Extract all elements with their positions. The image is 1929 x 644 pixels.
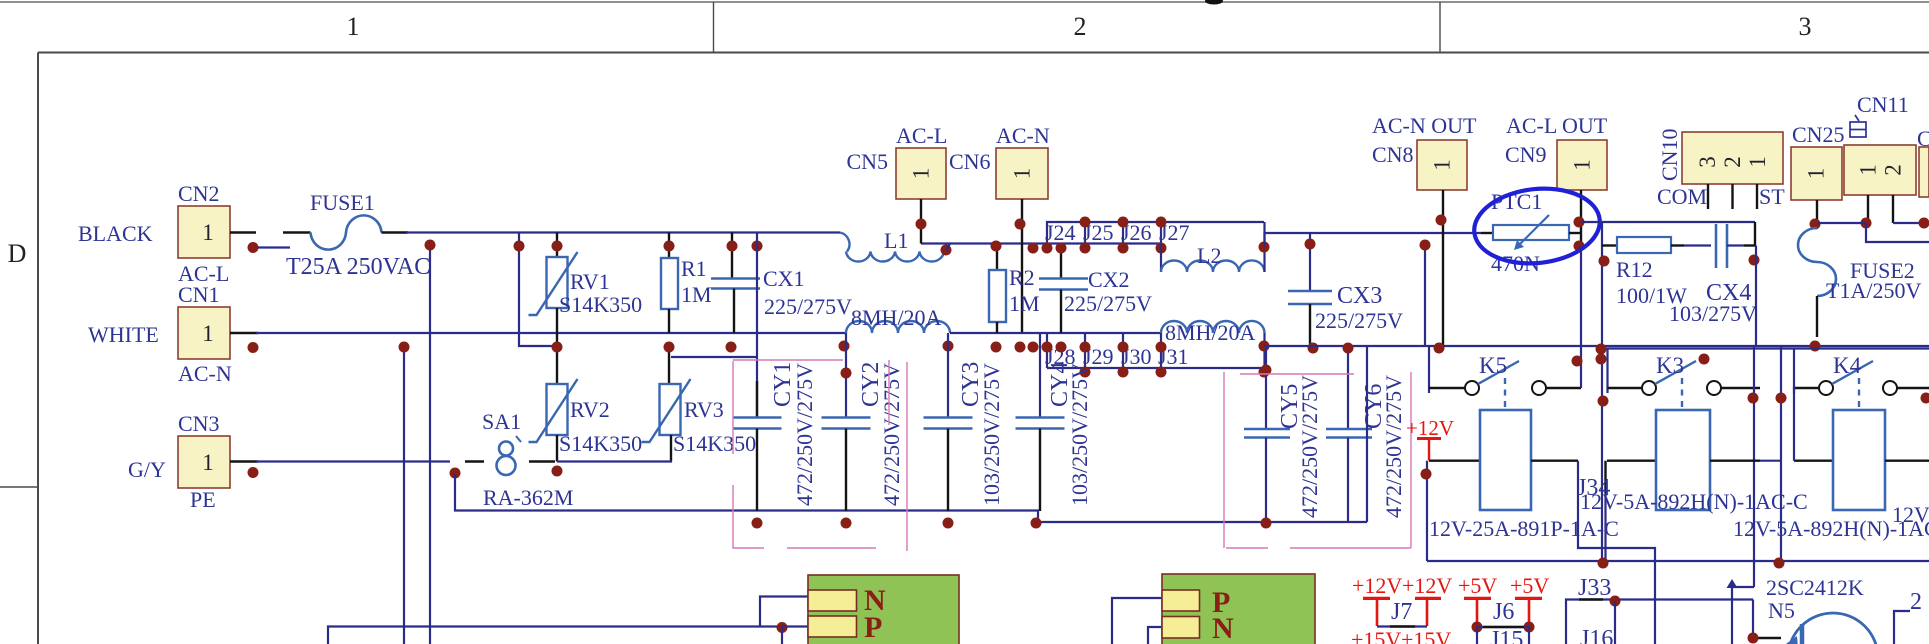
svg-text:103/250V/275V: 103/250V/275V xyxy=(979,363,1004,506)
svg-text:12V-25A-891P-1A-C: 12V-25A-891P-1A-C xyxy=(1429,516,1619,541)
CN6 pin lead down to AC-N wire xyxy=(1021,199,1023,333)
junction dot CN6 bottom xyxy=(1015,342,1026,353)
dots J24 row lower xyxy=(1028,243,1039,254)
jumper J7 link xyxy=(1377,625,1427,627)
svg-text:AC-N: AC-N xyxy=(996,123,1050,148)
junction dot CX1 top xyxy=(727,241,738,252)
svg-text:472/250V/275V: 472/250V/275V xyxy=(1381,375,1406,518)
junction dot CX1 bottom xyxy=(726,342,737,353)
svg-text:1: 1 xyxy=(1010,168,1035,180)
vertical wire CX4 node to bus xyxy=(1755,246,1757,347)
pink bracket CY2 right vertical xyxy=(888,360,890,425)
junction dot choke left xyxy=(839,341,850,352)
pink bracket CY1/CY2 left bottom xyxy=(733,485,876,548)
junction dot CN25 pin xyxy=(1810,219,1821,230)
relay contact K3 feed xyxy=(1606,349,1608,394)
svg-text:+12V: +12V xyxy=(1406,416,1454,440)
relay contact K4 poles and blade xyxy=(1819,361,1897,395)
vertical wire mid-bottom xyxy=(1654,561,1656,644)
dots J24 bus xyxy=(1080,217,1091,228)
blue highlight ellipse around PTC1 xyxy=(1470,183,1603,270)
svg-text:RV3: RV3 xyxy=(684,397,724,422)
vertical wire coil2 return xyxy=(1780,346,1782,561)
junction dot AC-N drop top xyxy=(1259,341,1270,352)
junction dot base lead xyxy=(1748,633,1759,644)
wire PE return under RA-362M xyxy=(455,473,1367,522)
wire L-bend AC-L to RV2 row xyxy=(519,233,557,347)
relay contact K3 left lead xyxy=(1608,387,1643,389)
junction dot R12 branch xyxy=(1599,256,1610,267)
svg-text:2: 2 xyxy=(1720,156,1745,168)
wire P pin stub xyxy=(782,625,808,627)
jumper J7 link black tick xyxy=(1390,625,1415,627)
svg-text:CN9: CN9 xyxy=(1505,142,1547,167)
relay contact K5 poles and blade xyxy=(1465,361,1546,395)
svg-text:J33: J33 xyxy=(1578,575,1611,601)
K4 right lead xyxy=(1897,387,1929,389)
fuse FUSE1 symbol xyxy=(283,215,408,249)
svg-text:1: 1 xyxy=(202,220,214,245)
svg-text:1: 1 xyxy=(1804,168,1829,180)
svg-text:103/275V: 103/275V xyxy=(1669,301,1757,326)
pink bracket CY1/CY2 top xyxy=(733,359,843,361)
junction dot CN8 pin xyxy=(1436,215,1447,226)
svg-text:1: 1 xyxy=(1745,156,1770,168)
jumper J15 link xyxy=(1477,626,1529,628)
svg-text:N: N xyxy=(1212,612,1234,644)
choke 8MH/20A on AC-N right xyxy=(1161,321,1265,333)
+12V left bar symbol xyxy=(1363,598,1390,626)
spark gap SA1 symbol xyxy=(465,436,555,475)
svg-text:1: 1 xyxy=(1570,159,1595,171)
junction dot P pin wire xyxy=(777,622,788,633)
relay coil K3 xyxy=(1656,410,1710,510)
jumper J34 left leg xyxy=(1578,461,1655,561)
svg-text:R1: R1 xyxy=(681,256,707,281)
capacitor CY4 xyxy=(1016,333,1065,511)
transistor base bar xyxy=(1800,624,1805,644)
K5 dashed link to coil xyxy=(1504,378,1506,410)
junction dot J33 xyxy=(1610,596,1621,607)
dots J28 row top xyxy=(1028,342,1039,353)
connector CN5 (AC-L) xyxy=(896,148,946,199)
wire P pin connector2 xyxy=(1112,598,1162,644)
connector CN8 (AC-N OUT) xyxy=(1417,140,1467,190)
relay contact K5 feed xyxy=(1428,346,1430,394)
right edge partial wire xyxy=(1894,611,1910,644)
CN10 pin 2 stub xyxy=(1731,184,1733,209)
svg-text:CN2: CN2 xyxy=(178,181,220,206)
choke 8MH/20A on AC-N under L1 xyxy=(846,321,950,333)
svg-text:472/250V/275V: 472/250V/275V xyxy=(879,363,904,506)
CN10 pin 3 stub xyxy=(1707,184,1709,209)
svg-text:AC-N OUT: AC-N OUT xyxy=(1372,113,1477,138)
pink bracket CY5/CY6 bottom xyxy=(1226,547,1268,549)
vertical wire AC-L to relay feed xyxy=(1424,245,1426,346)
svg-text:3: 3 xyxy=(1695,156,1720,168)
CN9 pin lead down xyxy=(1580,190,1582,246)
svg-text:D: D xyxy=(8,239,27,268)
junction dots near K5 right xyxy=(1572,356,1583,367)
wire CN11 pin2 right xyxy=(1893,222,1929,224)
pink bracket CY5 left vertical xyxy=(1223,372,1225,548)
junction dot CN11 pin2 wire xyxy=(1919,218,1929,229)
dots J28 row bottom xyxy=(1080,367,1091,378)
svg-text:3: 3 xyxy=(1799,12,1812,41)
wire CN25 dot to CN11 pin1 xyxy=(1817,222,1866,224)
varistor RV2 xyxy=(556,333,558,384)
varistor RV3 xyxy=(668,347,670,384)
svg-text:225/275V: 225/275V xyxy=(1315,308,1403,333)
wire AC-N drop after choke xyxy=(1263,333,1265,372)
varistor RV1 xyxy=(556,233,558,258)
junction dot AC-L relay feed xyxy=(1420,240,1431,251)
coil K4 right lead xyxy=(1885,460,1929,462)
junction dots K3 area xyxy=(1596,344,1607,355)
capacitor CX1 xyxy=(731,233,733,279)
green output connector 2 xyxy=(1162,574,1315,644)
svg-text:COM: COM xyxy=(1657,184,1707,209)
svg-text:225/275V: 225/275V xyxy=(764,294,852,319)
svg-text:K5: K5 xyxy=(1479,353,1507,378)
relay coil K5 xyxy=(1480,410,1531,510)
sheet border left vertical xyxy=(37,53,39,644)
svg-text:J7: J7 xyxy=(1391,599,1412,625)
svg-text:+15V: +15V xyxy=(1351,627,1401,644)
wire stub from CN2 dot xyxy=(258,246,290,248)
wire CN9 down to K5 right xyxy=(1580,246,1582,388)
+12V right bar symbol xyxy=(1415,598,1441,626)
svg-text:103/250V/275V: 103/250V/275V xyxy=(1067,363,1092,506)
junction dot AC-L drop xyxy=(425,240,436,251)
partial connector at right edge xyxy=(1919,147,1929,197)
svg-text:1: 1 xyxy=(909,168,934,180)
capacitor CY6 xyxy=(1326,346,1372,522)
CN11 pin 2 lead xyxy=(1892,195,1894,223)
sheet border top line xyxy=(0,1,1929,3)
vertical wire from J33 dot xyxy=(1614,601,1616,644)
svg-text:1: 1 xyxy=(202,321,214,346)
fuse FUSE2 symbol xyxy=(1798,228,1836,337)
CN11 Chinese label white (drawn) xyxy=(1850,115,1866,137)
junction dot AC-N drop bottom xyxy=(1259,367,1270,378)
cut-off title glyph remnant xyxy=(1205,0,1223,5)
capacitor CX2 xyxy=(1060,244,1062,278)
resistor R1 xyxy=(668,233,670,259)
junction dot L2 right xyxy=(1259,242,1270,253)
svg-text:225/275V: 225/275V xyxy=(1064,291,1152,316)
svg-text:L1: L1 xyxy=(884,228,908,253)
vertical wire CY1 feed xyxy=(756,233,758,417)
svg-text:2SC2412K: 2SC2412K xyxy=(1766,575,1864,600)
junction dot CN11 pin1 xyxy=(1861,218,1872,229)
connector1 pin N box xyxy=(808,590,857,611)
coil K3 right lead xyxy=(1710,460,1781,462)
CN10 pin 1 lower jog xyxy=(1754,222,1756,245)
svg-text:J24: J24 xyxy=(1045,220,1076,245)
R1 bottom lead xyxy=(668,309,670,333)
connector CN10 xyxy=(1682,132,1783,184)
resistor R2 xyxy=(996,244,998,270)
svg-text:472/250V/275V: 472/250V/275V xyxy=(792,363,817,506)
pink bracket CY5/CY6 top xyxy=(1240,373,1354,375)
net continuation arrow up xyxy=(1727,579,1738,588)
svg-text:RA-362M: RA-362M xyxy=(483,485,573,510)
pink bracket CY1/CY2 left upper vertical xyxy=(732,361,734,454)
wire K4 feed down to coil xyxy=(1793,386,1795,461)
svg-text:RV2: RV2 xyxy=(570,397,610,422)
junction dot CY5 bottom xyxy=(1261,518,1272,529)
junction dot CN9 pin xyxy=(1574,217,1585,228)
connector CN11 xyxy=(1844,145,1916,195)
svg-text:1: 1 xyxy=(1430,159,1455,171)
svg-text:AC-L OUT: AC-L OUT xyxy=(1506,113,1608,138)
wire N pin L-bend xyxy=(760,597,808,628)
svg-text:1: 1 xyxy=(1856,164,1881,176)
wire +12V to coil K5 xyxy=(1429,460,1480,462)
junction dot +12V branch xyxy=(1421,469,1432,480)
svg-text:PE: PE xyxy=(190,487,216,512)
vertical wire +12V branch to rail xyxy=(1426,461,1428,561)
wire AC-N between chokes xyxy=(950,332,1161,334)
svg-text:8MH/20A: 8MH/20A xyxy=(851,305,942,330)
svg-text:S14K350: S14K350 xyxy=(559,431,642,456)
svg-text:+12V: +12V xyxy=(1352,573,1402,598)
K3 dashed link to coil xyxy=(1681,378,1683,410)
svg-text:C: C xyxy=(1917,126,1929,151)
border zone divider 2|3 xyxy=(1439,2,1441,53)
main AC-N bus right section xyxy=(1264,345,1929,347)
transistor emitter arrow xyxy=(1783,636,1798,644)
svg-text:CX2: CX2 xyxy=(1088,267,1130,292)
resistor R12 xyxy=(1602,237,1684,253)
RV3 bottom lead xyxy=(670,435,672,462)
svg-text:SA1: SA1 xyxy=(482,409,521,434)
wire CN11 pin1 jog right xyxy=(1866,223,1929,242)
junction dot CY5 top xyxy=(1261,365,1272,376)
junction dot SA1 right xyxy=(552,466,563,477)
connector2 pin P box xyxy=(1162,590,1200,611)
svg-text:1M: 1M xyxy=(1009,291,1040,316)
junction dot RV1 top xyxy=(552,241,563,252)
wire RV2 bottom to RV3 bottom xyxy=(557,460,672,462)
junction dots J15 xyxy=(1472,622,1483,633)
vertical wire from P dot down xyxy=(781,627,783,644)
svg-text:CX3: CX3 xyxy=(1337,283,1382,309)
relay contact K3 poles and blade xyxy=(1642,361,1721,395)
pink bracket CY3/CY4 vertical xyxy=(906,362,908,551)
vertical wire J33 net to base xyxy=(1752,600,1754,639)
vertical wires below J15 dots xyxy=(1476,627,1478,644)
svg-text:J16: J16 xyxy=(1580,626,1613,644)
junction dot AC-N drop xyxy=(399,342,410,353)
CN11 pin 1 lead xyxy=(1867,195,1869,223)
svg-text:2: 2 xyxy=(1910,589,1922,615)
svg-text:+5V: +5V xyxy=(1510,573,1549,598)
svg-text:FUSE1: FUSE1 xyxy=(310,190,375,215)
junction dot CY2 mid xyxy=(841,368,852,379)
svg-text:8MH/20A: 8MH/20A xyxy=(1165,320,1256,345)
thermistor PTC1 xyxy=(1481,215,1581,250)
wire N pin connector2 xyxy=(1148,627,1162,644)
jumper J25 leg xyxy=(1084,222,1086,244)
junction dot CN2 pin xyxy=(248,242,259,253)
svg-text:CN1: CN1 xyxy=(178,282,220,307)
svg-text:+12V: +12V xyxy=(1402,573,1452,598)
transistor base lead xyxy=(1753,637,1781,639)
capacitor CX3 xyxy=(1288,233,1332,346)
CN25 pin lead xyxy=(1816,200,1818,228)
junction dot CN3 pin xyxy=(248,467,259,478)
K3 right lead xyxy=(1721,387,1760,389)
transistor N5 circle xyxy=(1788,613,1878,644)
svg-text:L2: L2 xyxy=(1197,243,1221,268)
svg-text:CN5: CN5 xyxy=(846,149,888,174)
svg-text:K4: K4 xyxy=(1833,353,1862,378)
junction dot L1 right xyxy=(941,245,952,256)
junction dot CY1 feed top xyxy=(752,241,763,252)
junction dot transistor feed upper xyxy=(1748,393,1759,404)
junction dot choke right xyxy=(943,341,954,352)
capacitor CY2 xyxy=(822,333,871,511)
wire coil K3 left lead xyxy=(1607,460,1656,462)
jumper bank J28-J31 legs xyxy=(1047,333,1264,368)
junction dot R2 top xyxy=(991,241,1002,252)
wire L1 out to J24 row xyxy=(921,244,1161,252)
wire AC-L horizontal xyxy=(406,231,840,233)
inductor L2 xyxy=(1161,222,1265,272)
svg-text:T1A/250V: T1A/250V xyxy=(1826,278,1921,303)
wire G/Y horizontal xyxy=(256,460,450,462)
vertical wire below net arrow xyxy=(1731,588,1733,644)
CN3 pin lead xyxy=(230,460,258,462)
svg-text:1: 1 xyxy=(347,12,360,41)
svg-text:WHITE: WHITE xyxy=(88,322,159,347)
svg-text:AC-N: AC-N xyxy=(178,361,232,386)
capacitor CY1 xyxy=(733,381,782,511)
junction dot CX4 out xyxy=(1749,255,1760,266)
svg-text:BLACK: BLACK xyxy=(78,221,153,246)
svg-text:CN25: CN25 xyxy=(1792,122,1845,147)
CN1 pin lead xyxy=(230,332,258,334)
junction dot R1 top xyxy=(664,241,675,252)
junction dot CN1 pin xyxy=(248,342,259,353)
K5 right lead xyxy=(1546,387,1581,389)
connector CN2 (BLACK AC-L) xyxy=(178,206,230,258)
vertical wire transistor feed xyxy=(1753,346,1755,587)
svg-text:CN6: CN6 xyxy=(949,149,991,174)
RV2 bottom lead xyxy=(556,435,558,462)
junction dot CY6 top xyxy=(1343,343,1354,354)
svg-text:T25A 250VAC: T25A 250VAC xyxy=(286,254,430,280)
wire AC-L after L2 xyxy=(1265,233,1482,247)
+12V supply symbol xyxy=(1406,416,1454,461)
CN8 pin lead down to bus xyxy=(1442,190,1444,346)
wire RV3 top to CY1 feed xyxy=(671,356,757,358)
junction dot CN5 pin xyxy=(916,219,927,230)
svg-text:472/250V/275V: 472/250V/275V xyxy=(1297,375,1322,518)
bottom rail wire xyxy=(1427,560,1929,562)
svg-text:+5V: +5V xyxy=(1458,573,1497,598)
coil K5 right lead xyxy=(1531,460,1578,462)
svg-text:12V-5A-892H(N)-1AC-C: 12V-5A-892H(N)-1AC-C xyxy=(1580,489,1808,514)
border row divider D left edge xyxy=(0,486,38,488)
connector CN3 (G/Y PE) xyxy=(178,436,230,488)
+5V left bar symbol xyxy=(1464,598,1491,626)
svg-text:CN10: CN10 xyxy=(1657,128,1682,181)
jumper J27 leg xyxy=(1160,222,1162,244)
svg-text:12V: 12V xyxy=(1892,502,1929,527)
junction dot FUSE2 bottom xyxy=(1810,341,1821,352)
wire lower bus right end up xyxy=(1366,347,1368,522)
vertical wire R12 branch xyxy=(1601,222,1603,561)
+5V right bar symbol xyxy=(1515,598,1542,626)
svg-text:ST: ST xyxy=(1759,184,1785,209)
connector CN9 (AC-L OUT) xyxy=(1557,140,1607,190)
green output connector 1 xyxy=(808,575,959,644)
CN2 pin lead xyxy=(230,231,256,233)
sheet border inner horizontal xyxy=(38,52,1929,54)
svg-text:CN3: CN3 xyxy=(178,411,220,436)
dots CY bottom bus xyxy=(752,518,763,529)
jumper J15 link black tick xyxy=(1483,626,1524,628)
svg-text:S14K350: S14K350 xyxy=(559,292,642,317)
junction dot K4 right xyxy=(1921,393,1929,404)
relay coil K4 xyxy=(1833,410,1885,510)
junction dot SA1 left xyxy=(450,468,461,479)
junction dot CN8 at bus xyxy=(1434,343,1445,354)
junction dot CX3 bottom xyxy=(1308,343,1319,354)
junction dot at 519 xyxy=(514,241,525,252)
svg-text:CN8: CN8 xyxy=(1372,142,1414,167)
svg-text:R12: R12 xyxy=(1616,257,1653,282)
K4 dashed link to coil xyxy=(1858,378,1860,410)
jumper J33 outline xyxy=(1566,600,1753,644)
svg-text:AC-L: AC-L xyxy=(896,123,947,148)
svg-text:R2: R2 xyxy=(1009,265,1035,290)
svg-text:J15: J15 xyxy=(1490,627,1523,644)
jumper J26 leg xyxy=(1122,222,1124,244)
svg-text:CN11: CN11 xyxy=(1857,92,1909,117)
junction dot rail 1 xyxy=(1598,558,1609,569)
connector CN1 (WHITE AC-N) xyxy=(178,307,230,359)
svg-text:2: 2 xyxy=(1881,164,1906,176)
svg-text:G/Y: G/Y xyxy=(128,457,166,482)
svg-text:1: 1 xyxy=(202,450,214,475)
vertical wire from AC-L to bottom xyxy=(429,245,431,644)
long bottom wire to output connector xyxy=(328,627,782,644)
junction dot CN9 lower xyxy=(1574,241,1585,252)
connector CN6 (AC-N) xyxy=(996,148,1048,199)
wire jog to net arrow xyxy=(1732,586,1754,588)
svg-text:K3: K3 xyxy=(1656,353,1684,378)
svg-text:P: P xyxy=(864,611,882,644)
junction dot CN6 pin xyxy=(1015,219,1026,230)
capacitor CY5 xyxy=(1244,346,1290,522)
connector CN25 xyxy=(1791,147,1842,200)
wire AC-N horizontal xyxy=(256,332,846,334)
CN10 pin 1 stub xyxy=(1756,184,1758,209)
jumper J34 right leg xyxy=(1604,461,1606,561)
junction dot RV3 top xyxy=(664,342,675,353)
inductor L1 xyxy=(840,233,944,262)
contact feeder bus second line xyxy=(1601,347,1929,349)
svg-text:+15V: +15V xyxy=(1401,627,1451,644)
capacitor CY3 xyxy=(924,333,973,511)
relay contact K5 left lead xyxy=(1429,387,1465,389)
svg-text:N5: N5 xyxy=(1768,598,1795,623)
junction dot rail 2 xyxy=(1774,558,1785,569)
